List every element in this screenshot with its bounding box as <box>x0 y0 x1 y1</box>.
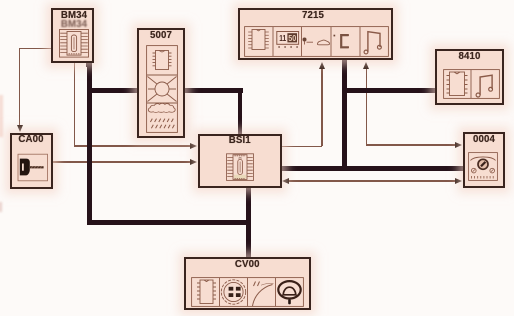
svg-text:11: 11 <box>279 33 286 43</box>
svg-text:50: 50 <box>288 34 296 43</box>
